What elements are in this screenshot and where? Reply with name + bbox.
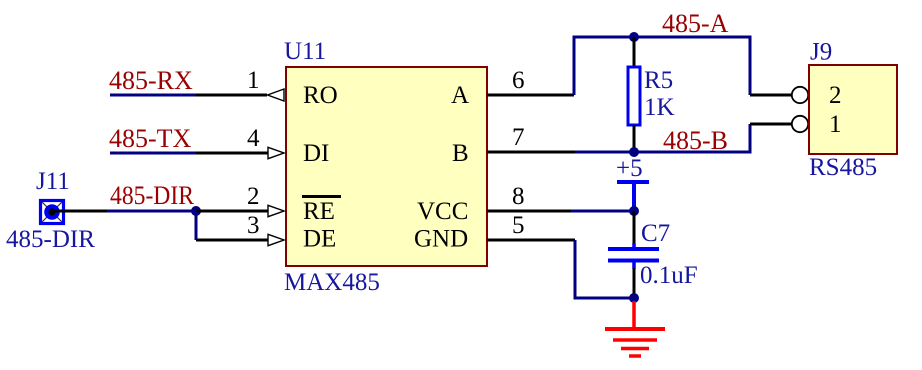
wire pin 6 black segment: [487, 94, 574, 97]
wire R5 top stub: [633, 37, 636, 67]
svg-text:1K: 1K: [644, 94, 675, 121]
svg-text:C7: C7: [641, 220, 670, 247]
svg-text:+5: +5: [616, 155, 643, 182]
wire 485-RX blue segment: [110, 94, 196, 97]
junction at R5 bottom: [629, 147, 639, 157]
wire 485-TX blue segment: [110, 152, 196, 155]
junction at R5 top: [629, 32, 639, 42]
svg-text:8: 8: [512, 183, 525, 210]
svg-text:RS485: RS485: [809, 154, 877, 181]
wire J11 to net black segment: [52, 210, 108, 213]
svg-text:GND: GND: [414, 226, 468, 253]
wire pin 4 black segment: [196, 152, 268, 155]
power +5 bar symbol: [617, 180, 649, 184]
svg-text:485-TX: 485-TX: [109, 124, 192, 153]
J9 pin 2 circle: [792, 87, 808, 103]
svg-text:485-B: 485-B: [663, 126, 728, 155]
pin 4 input arrow: [268, 147, 284, 158]
svg-text:J11: J11: [36, 168, 70, 195]
connector J9 body: [809, 65, 897, 154]
svg-text:J9: J9: [810, 39, 832, 66]
wire J9 pin 1 black segment: [750, 123, 792, 126]
wire pin 3 black segment: [196, 239, 268, 242]
wire R5 bottom stub: [633, 125, 636, 152]
svg-text:VCC: VCC: [417, 198, 468, 225]
capacitor C7 bottom plate: [608, 259, 659, 263]
svg-text:R5: R5: [644, 67, 673, 94]
ground stem: [632, 301, 636, 329]
svg-text:3: 3: [247, 212, 260, 239]
ground bar 2: [613, 338, 657, 342]
svg-text:A: A: [451, 82, 469, 109]
svg-text:5: 5: [512, 212, 525, 239]
wire pin 7 black segment: [487, 151, 575, 154]
svg-text:2: 2: [247, 183, 260, 210]
svg-text:7: 7: [512, 124, 525, 151]
junction at GND node: [629, 293, 639, 303]
junction at 485-DIR split: [191, 206, 201, 216]
junction at VCC node: [629, 206, 639, 216]
wire C7 bottom stub: [633, 268, 636, 298]
wire 485-A riser: [574, 37, 750, 95]
svg-text:485-DIR: 485-DIR: [110, 181, 195, 210]
RE overline: [302, 195, 341, 198]
svg-text:RE: RE: [303, 198, 335, 225]
svg-text:485-RX: 485-RX: [109, 66, 193, 95]
ground bar 3: [621, 347, 649, 351]
svg-text:485-DIR: 485-DIR: [6, 226, 95, 253]
wire 485-DIR vertical drop: [195, 211, 198, 240]
IC U11 body: [286, 67, 487, 266]
svg-text:1: 1: [247, 67, 260, 94]
wire GND blue run: [575, 240, 634, 298]
connector J11 symbol: [41, 201, 64, 224]
svg-text:DE: DE: [303, 226, 336, 253]
wire 485-B run: [575, 124, 750, 152]
pin 3 input arrow: [268, 234, 284, 245]
pin 2 input arrow: [268, 205, 284, 216]
svg-text:485-A: 485-A: [662, 9, 729, 38]
C7 top lead: [632, 243, 636, 250]
wire 485-DIR blue segment: [107, 210, 196, 213]
pin 1 output arrow: [268, 89, 285, 101]
svg-text:DI: DI: [303, 140, 329, 167]
wire pin 5 black segment: [487, 239, 575, 242]
ground bar 4: [629, 354, 641, 358]
svg-text:B: B: [452, 140, 469, 167]
svg-text:2: 2: [829, 82, 842, 109]
svg-text:MAX485: MAX485: [284, 269, 380, 296]
wire pin 2 black segment: [196, 210, 268, 213]
svg-text:RO: RO: [303, 82, 338, 109]
capacitor C7 top plate: [608, 247, 659, 251]
resistor R5: [628, 67, 640, 125]
wire J9 pin 2 black segment: [750, 94, 792, 97]
wire C7 top stub: [633, 211, 636, 244]
svg-text:0.1uF: 0.1uF: [640, 262, 698, 289]
ground bar 1: [605, 327, 665, 331]
C7 bottom lead: [632, 260, 636, 269]
wire pin 1 black segment: [196, 94, 267, 97]
svg-text:U11: U11: [284, 38, 326, 65]
power +5 stem: [632, 182, 636, 209]
wire VCC blue segment: [571, 210, 634, 213]
J9 pin 1 circle: [792, 116, 808, 132]
svg-text:1: 1: [829, 111, 842, 138]
svg-text:4: 4: [247, 125, 260, 152]
svg-text:6: 6: [512, 67, 525, 94]
wire pin 8 black segment: [487, 210, 571, 213]
